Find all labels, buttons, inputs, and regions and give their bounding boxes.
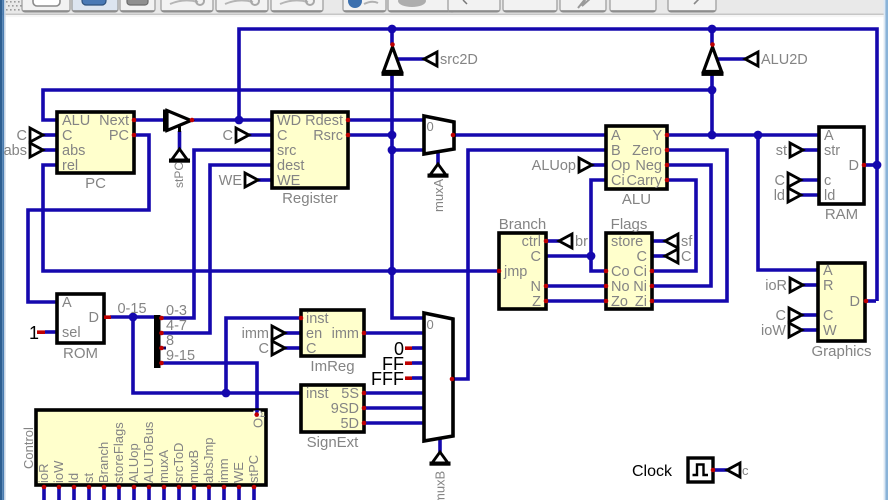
svg-text:W: W — [823, 323, 837, 339]
tri-state buffer B3 (ALU Y to D-bus, enable ALU2D) — [702, 47, 724, 76]
wire buffer B2 enable to src2D tunnel — [398, 57, 424, 61]
svg-text:Branch: Branch — [499, 216, 547, 233]
wire instruction bus tap to ImReg.inst — [226, 318, 301, 393]
wire ALU.Zero to Flags.Zi — [652, 150, 727, 301]
tunnel c (clock net) — [727, 463, 740, 477]
svg-text:Ni: Ni — [633, 279, 647, 295]
tunnel sf (Flags store) — [665, 234, 693, 250]
svg-text:C: C — [277, 128, 287, 144]
splitter (instruction bus 0-15 into 0-3 / 4-7 / 8 / 9-15) — [154, 303, 195, 368]
svg-text:RAM: RAM — [825, 206, 858, 223]
wire buffer B3 enable to ALU2D tunnel — [718, 57, 745, 61]
svg-text:ioR: ioR — [765, 278, 787, 294]
svg-text:br: br — [575, 234, 588, 250]
tunnel br (Branch ctrl) — [559, 234, 588, 250]
subcircuit Flags — [606, 216, 652, 310]
svg-text:ALU2D: ALU2D — [761, 52, 808, 68]
wire splitter 9-15 to Control.Op — [161, 363, 257, 412]
junction WD / D-bus riser — [235, 116, 244, 125]
svg-text:ALU: ALU — [62, 113, 90, 129]
svg-text:Clock: Clock — [632, 463, 673, 480]
wire Y-bus riser to Graphics.A — [758, 135, 818, 270]
svg-text:WE: WE — [231, 462, 246, 483]
tunnel C (Register clock) — [223, 128, 249, 144]
wire tunnel C to Register.C — [249, 133, 272, 137]
constant 1 (ROM sel) — [29, 323, 45, 343]
svg-text:ioW: ioW — [51, 460, 66, 483]
svg-text:sf: sf — [681, 234, 693, 250]
wire Flags.Zo to Branch.Z — [546, 299, 606, 303]
constant FFF (muxB input4) — [371, 369, 412, 389]
wire tunnel ALUop to ALU.Op — [592, 163, 606, 167]
svg-text:N: N — [531, 279, 541, 295]
wire splitter 0-3 to Register.src — [161, 150, 272, 318]
wire buffer B3 input riser from Y-bus — [710, 75, 714, 135]
svg-text:Ci: Ci — [611, 173, 625, 189]
svg-text:ALUop: ALUop — [126, 443, 141, 483]
subcircuit Control — [21, 410, 266, 485]
svg-text:R: R — [823, 278, 833, 294]
wire Clock to tunnel c — [713, 468, 727, 472]
svg-text:Graphics: Graphics — [811, 343, 871, 360]
tunnel st (RAM store) — [776, 143, 803, 159]
svg-text:Co: Co — [611, 264, 630, 280]
wire tunnel ioW to Graphics.W — [802, 328, 818, 332]
tri-state buffer B2 (src to D-bus, enable src2D) — [382, 47, 404, 76]
svg-text:muxA: muxA — [156, 449, 171, 483]
toolbar buttons — [22, 0, 716, 12]
svg-text:C: C — [259, 341, 269, 357]
wire Flags store to tunnel sf — [652, 239, 665, 243]
wire ALU-Y to PC.ALU feedback — [43, 90, 712, 120]
wire ROM.D to splitter — [110, 315, 154, 319]
svg-text:A: A — [611, 128, 621, 144]
wire Rsrc riser to muxA input1 — [392, 148, 424, 152]
svg-text:A: A — [62, 295, 72, 311]
svg-text:D: D — [850, 294, 860, 310]
wire splitter 8 stub — [161, 347, 166, 350]
svg-text:4-7: 4-7 — [166, 318, 187, 334]
svg-text:WE: WE — [277, 173, 301, 189]
junction Branch C / Ci riser — [587, 252, 596, 261]
svg-text:ALUop: ALUop — [532, 158, 576, 174]
Control Op port notch — [253, 411, 260, 417]
wire buffer B1 enable to stPC tunnel — [178, 131, 182, 149]
svg-text:Register: Register — [282, 190, 338, 207]
svg-text:src2D: src2D — [440, 52, 478, 68]
svg-text:8: 8 — [166, 333, 174, 349]
wire ImReg.imm to muxB input1 — [364, 331, 424, 335]
svg-text:Zero: Zero — [632, 143, 662, 159]
svg-text:9SD: 9SD — [331, 401, 359, 417]
subcircuit Graphics — [811, 263, 871, 360]
svg-text:str: str — [824, 143, 840, 159]
wire buffer B2 output to D-bus — [390, 29, 394, 45]
wire Branch.ctrl to tunnel br — [546, 239, 559, 243]
wire Control output stubs — [44, 487, 254, 500]
svg-text:jmp: jmp — [503, 264, 527, 280]
svg-text:C: C — [776, 308, 786, 324]
svg-text:ioW: ioW — [761, 323, 786, 339]
svg-text:muxB: muxB — [186, 450, 201, 483]
svg-text:C: C — [223, 128, 233, 144]
left window edge strip — [0, 0, 2, 500]
wire ALU.Y to RAM.A — [667, 133, 819, 137]
svg-text:ImReg: ImReg — [310, 358, 354, 375]
svg-text:C: C — [62, 128, 72, 144]
svg-text:Rdest: Rdest — [305, 113, 343, 129]
svg-text:imm: imm — [216, 458, 231, 483]
svg-text:inst: inst — [306, 386, 329, 402]
tri-state buffer B1 (PC Next, enable stPC) — [163, 110, 191, 133]
svg-text:C: C — [775, 173, 785, 189]
tunnel ld (RAM load) — [774, 188, 801, 204]
wire buffer B1 output to Register.WD — [192, 118, 272, 122]
wire SignExt.5D to muxB input7 — [364, 421, 424, 425]
svg-text:muxB: muxB — [433, 471, 448, 500]
wire tunnel ld to RAM.ld — [801, 193, 819, 197]
wire tunnel st to RAM.str — [803, 148, 819, 152]
svg-text:0-15: 0-15 — [117, 301, 146, 317]
wire splitter 4-7 to Register.dest — [161, 165, 272, 333]
svg-text:Z: Z — [532, 294, 541, 310]
svg-text:WE: WE — [219, 173, 243, 189]
svg-text:B: B — [611, 143, 621, 159]
junction Rsrc / riser — [388, 131, 397, 140]
svg-text:Zi: Zi — [635, 294, 647, 310]
tunnel src2D (B2 enable) — [424, 52, 478, 68]
svg-text:Y: Y — [652, 128, 662, 144]
wire muxB output to ALU.B — [453, 150, 606, 379]
svg-text:C: C — [17, 128, 27, 144]
svg-text:muxA: muxA — [431, 178, 446, 212]
wire buffer B3 output to D-bus — [710, 29, 714, 45]
svg-text:D: D — [849, 158, 859, 174]
subcircuit PC — [57, 112, 134, 192]
wire constant 0 to muxB input2 — [412, 346, 424, 350]
wire tunnel WE to Register.WE — [258, 178, 272, 182]
svg-text:inst: inst — [306, 311, 329, 327]
wire SignExt.9SD to muxB input6 — [364, 406, 424, 410]
svg-text:sel: sel — [62, 325, 81, 341]
wire muxB select to tunnel muxB — [438, 439, 442, 452]
wire rel/jmp net: PC.rel riser to Branch.jmp — [43, 165, 499, 271]
multiplexer muxA — [424, 116, 454, 154]
subcircuit Register — [272, 112, 348, 207]
junction RAM D / D-bus riser — [873, 161, 882, 170]
svg-text:ctrl: ctrl — [522, 234, 541, 250]
subcircuit Branch — [499, 216, 547, 310]
svg-text:C: C — [823, 308, 833, 324]
wire constant FF to muxB input3 — [412, 361, 424, 365]
svg-text:Op: Op — [611, 158, 630, 174]
svg-text:Branch: Branch — [96, 442, 111, 483]
junction ROM D / instruction riser — [129, 313, 138, 322]
wire tunnel C to Graphics.C — [802, 313, 818, 317]
svg-text:9-15: 9-15 — [166, 348, 195, 364]
svg-text:storeFlags: storeFlags — [111, 422, 126, 483]
junction instruction bus / Op riser — [254, 390, 259, 395]
svg-text:FFF: FFF — [371, 369, 404, 389]
wire Register.Rdest to muxA input0 — [348, 118, 424, 122]
svg-text:ioR: ioR — [36, 463, 51, 483]
wire Branch.C join — [546, 254, 591, 258]
svg-text:abs: abs — [4, 143, 27, 159]
svg-text:st: st — [776, 143, 787, 159]
wire constant FFF to muxB input4 — [412, 376, 424, 380]
svg-text:5S: 5S — [341, 386, 359, 402]
svg-text:dest: dest — [277, 158, 304, 174]
tunnel C (Graphics clock) — [776, 308, 802, 324]
wire tunnel abs to PC.abs — [43, 148, 57, 152]
subcircuit RAM — [819, 127, 864, 223]
wire ALU.Neg to Flags.Ni — [652, 165, 711, 286]
multiplexer muxB — [424, 313, 453, 441]
junction Y-bus / B3 riser — [708, 86, 717, 95]
wire RAM D to D-bus — [864, 163, 877, 167]
svg-text:ROM: ROM — [63, 345, 98, 362]
svg-text:SignExt: SignExt — [307, 434, 360, 451]
svg-text:PC: PC — [109, 128, 129, 144]
junction Y-bus / B3 riser lower — [708, 131, 717, 140]
tunnel stPC (buffer B1 enable) — [169, 149, 190, 163]
svg-text:rel: rel — [62, 158, 78, 174]
svg-text:C: C — [306, 341, 316, 357]
tunnel muxA (muxA select) — [428, 164, 449, 178]
svg-text:C: C — [531, 249, 541, 265]
svg-text:0-3: 0-3 — [166, 303, 187, 319]
junction rel net / Rsrc riser — [388, 267, 397, 276]
constant 0 (muxB input2) — [394, 339, 412, 359]
wire tunnel C to ImReg.C — [285, 346, 301, 350]
svg-text:stPC: stPC — [172, 162, 186, 188]
tunnel WE (Register write enable) — [219, 173, 258, 189]
svg-text:srcToD: srcToD — [171, 443, 186, 483]
tunnel C (PC clock input) — [17, 128, 43, 144]
svg-text:0: 0 — [427, 317, 434, 332]
wire muxA output to ALU.A — [453, 133, 606, 137]
wire tunnel ioR to Graphics.R — [803, 283, 818, 287]
wire tunnel C to PC.C — [43, 133, 57, 137]
wire Flags.No to Branch.N — [546, 284, 606, 288]
svg-text:WD: WD — [277, 113, 301, 129]
junction Y-bus / Graphics riser — [754, 131, 763, 140]
svg-text:src: src — [277, 143, 296, 159]
svg-text:store: store — [611, 234, 643, 250]
svg-text:st: st — [81, 473, 96, 484]
svg-text:C: C — [681, 249, 691, 265]
svg-text:Zo: Zo — [611, 294, 628, 310]
svg-text:ld: ld — [774, 188, 785, 204]
toolbar background — [0, 0, 888, 14]
tunnel muxB (muxB select) — [430, 452, 451, 466]
svg-text:Control: Control — [21, 427, 36, 469]
svg-text:A: A — [824, 128, 834, 144]
svg-text:C: C — [637, 249, 647, 265]
subcircuit ImReg — [301, 310, 364, 375]
svg-text:stPC: stPC — [246, 455, 261, 483]
svg-text:Ci: Ci — [633, 264, 647, 280]
junction instruction bus / ImReg tap — [222, 389, 231, 398]
svg-text:A: A — [823, 263, 833, 279]
wire constant 1 to ROM.sel — [45, 330, 57, 334]
svg-text:No: No — [611, 279, 630, 295]
tunnel ALUop (ALU op select) — [532, 158, 592, 174]
constant FF (muxB input3) — [382, 354, 412, 374]
svg-text:Flags: Flags — [611, 216, 648, 233]
wire instruction bus to SignExt.inst — [133, 317, 301, 393]
subcircuit SignExt — [301, 385, 364, 451]
svg-text:5D: 5D — [340, 416, 359, 432]
tunnel C (ImReg clock) — [259, 341, 285, 357]
svg-text:0: 0 — [427, 119, 434, 134]
svg-text:Next: Next — [99, 113, 129, 129]
svg-text:Carry: Carry — [627, 173, 663, 189]
svg-text:abs: abs — [62, 143, 85, 159]
right scrollbar strip — [884, 0, 886, 500]
tunnel ALU2D (B3 enable) — [745, 52, 808, 68]
junction D-bus / B3 output — [708, 25, 717, 34]
svg-text:ALU: ALU — [622, 191, 651, 208]
wire ALU.Carry to Flags.Ci — [652, 180, 696, 271]
subcircuit ALU — [606, 126, 667, 208]
wire D-bus: WD riser, top bus, right riser to Graphics D — [239, 29, 877, 301]
junction Rsrc riser / muxA input1 — [388, 146, 397, 155]
svg-text:ld: ld — [824, 188, 835, 204]
tunnel C (RAM clock) — [775, 173, 801, 189]
wire Flags.Co to ALU.Ci riser — [591, 180, 606, 271]
svg-text:Rsrc: Rsrc — [313, 128, 343, 144]
tunnel abs (PC) — [4, 143, 43, 159]
svg-text:imm: imm — [332, 326, 359, 342]
wire Rsrc riser down to muxB input0 — [392, 75, 424, 318]
svg-text:c: c — [824, 173, 831, 189]
svg-text:absJmp: absJmp — [201, 437, 216, 483]
junction D-bus / B2 output — [388, 25, 397, 34]
wire tunnel imm to ImReg.en — [285, 331, 301, 335]
wire PC.Next to buffer B1 — [134, 118, 165, 122]
tunnel ioW (Graphics write) — [761, 323, 802, 339]
svg-text:PC: PC — [85, 175, 106, 192]
clock component with label Clock — [632, 458, 713, 482]
wire muxA select to tunnel muxA — [436, 152, 440, 165]
svg-text:ld: ld — [66, 473, 81, 483]
wire Graphics D to D-bus — [865, 299, 876, 303]
svg-text:D: D — [89, 310, 99, 326]
wire Flags C to tunnel C — [652, 254, 665, 258]
svg-text:c: c — [742, 463, 749, 478]
svg-text:ALUToBus: ALUToBus — [141, 421, 156, 483]
wire SignExt.5S to muxB input5 — [364, 391, 424, 395]
wire PC output to ROM.A — [28, 135, 149, 302]
tunnel imm (ImReg enable) — [242, 326, 285, 342]
tunnel ioR (Graphics read) — [765, 278, 803, 294]
subcircuit ROM — [57, 294, 104, 362]
wire Register.Rsrc to Rsrc riser — [348, 133, 392, 137]
svg-text:en: en — [306, 326, 322, 342]
toolbar drag handle — [6, 1, 22, 11]
tunnel C (Flags clock) — [665, 249, 691, 265]
svg-text:imm: imm — [242, 326, 269, 342]
wire tunnel C to RAM.c — [801, 178, 819, 182]
svg-text:Neg: Neg — [635, 158, 662, 174]
